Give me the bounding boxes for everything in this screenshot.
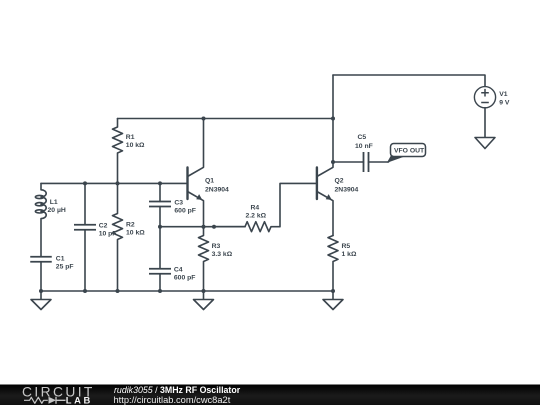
- node C3/C4 tap: [158, 225, 162, 229]
- svg-text:L1: L1: [50, 199, 58, 206]
- resistor R4: [214, 183, 316, 231]
- svg-text:2N3904: 2N3904: [205, 186, 229, 193]
- resistor R1: [113, 119, 146, 184]
- node rail / Q2 collector column junction: [331, 117, 335, 121]
- node C2 bottom: [83, 289, 87, 293]
- node Q2 collector / C5 junction: [331, 160, 335, 164]
- resistor R3: [199, 227, 233, 291]
- node C2 tap: [83, 181, 87, 185]
- svg-text:10 kΩ: 10 kΩ: [126, 229, 145, 236]
- ground left: [31, 291, 51, 310]
- svg-text:VFO OUT: VFO OUT: [394, 147, 425, 154]
- svg-text:9 V: 9 V: [499, 100, 510, 107]
- svg-text:600 pF: 600 pF: [174, 208, 196, 215]
- node R5 / ground: [331, 289, 335, 293]
- svg-text:R4: R4: [251, 204, 260, 211]
- svg-text:LAB: LAB: [66, 395, 93, 405]
- wire Q2 collector vertical: [332, 75, 334, 162]
- wire R1 top rail: [118, 118, 334, 120]
- node C1 / ground: [39, 289, 43, 293]
- transistor Q2 2N3904: [317, 162, 359, 236]
- svg-text:R2: R2: [126, 221, 135, 228]
- wire bottom rail: [41, 290, 333, 292]
- node R1/R2 tap: [116, 181, 120, 185]
- svg-text:10 nF: 10 nF: [355, 143, 373, 150]
- capacitor C2: [74, 183, 116, 291]
- node R4 wire junction: [212, 225, 216, 229]
- wire V1 to ground: [484, 108, 486, 138]
- svg-text:25 pF: 25 pF: [56, 263, 74, 270]
- resistor R5: [328, 236, 357, 292]
- ground right: [323, 291, 343, 310]
- node R3 / ground: [202, 289, 206, 293]
- svg-text:rudik3055 / 3MHz RF Oscillator: rudik3055 / 3MHz RF Oscillator: [114, 385, 241, 395]
- svg-text:3.3 kΩ: 3.3 kΩ: [212, 251, 233, 258]
- node Q1 collector / rail junction: [202, 117, 206, 121]
- capacitor C3: [149, 183, 196, 226]
- ground V1: [475, 138, 495, 149]
- svg-text:2N3904: 2N3904: [335, 186, 359, 193]
- logo diode: [49, 397, 57, 404]
- node R2 bottom: [116, 289, 120, 293]
- svg-text:C2: C2: [99, 222, 108, 229]
- node Q1 emitter / R3 tap: [202, 225, 206, 229]
- svg-text:600 pF: 600 pF: [174, 275, 196, 282]
- svg-text:1 kΩ: 1 kΩ: [342, 251, 357, 258]
- inductor L1: [35, 183, 65, 256]
- voltage source V1 9V: [474, 87, 509, 108]
- logo resistor squiggle: [24, 397, 48, 403]
- svg-text:R5: R5: [342, 243, 351, 250]
- transistor Q1 2N3904: [188, 119, 230, 227]
- svg-text:10 kΩ: 10 kΩ: [126, 142, 145, 149]
- svg-text:Q1: Q1: [205, 177, 214, 184]
- wire base rail (tank top): [41, 182, 186, 184]
- svg-text:C3: C3: [174, 200, 183, 207]
- svg-text:R3: R3: [212, 243, 221, 250]
- wire top rail V+: [333, 75, 485, 87]
- svg-text:2.2 kΩ: 2.2 kΩ: [246, 212, 267, 219]
- svg-text:20 µH: 20 µH: [48, 207, 66, 214]
- capacitor C4: [149, 227, 195, 291]
- svg-text:C5: C5: [358, 134, 367, 141]
- svg-text:http://circuitlab.com/cwc8a2t: http://circuitlab.com/cwc8a2t: [114, 395, 231, 405]
- ground middle: [194, 291, 214, 310]
- svg-text:C1: C1: [56, 255, 65, 262]
- node C4 bottom: [158, 289, 162, 293]
- wire Q1 emitter rail: [160, 226, 245, 228]
- svg-text:V1: V1: [499, 91, 508, 98]
- flag VFO OUT: [387, 144, 426, 163]
- node C3 tap: [158, 181, 162, 185]
- svg-text:C4: C4: [174, 267, 183, 274]
- capacitor C1: [30, 255, 73, 291]
- resistor R2: [113, 183, 146, 291]
- footer bar: [0, 385, 540, 405]
- svg-text:R1: R1: [126, 134, 135, 141]
- capacitor C5: [333, 134, 389, 172]
- svg-text:Q2: Q2: [335, 177, 344, 184]
